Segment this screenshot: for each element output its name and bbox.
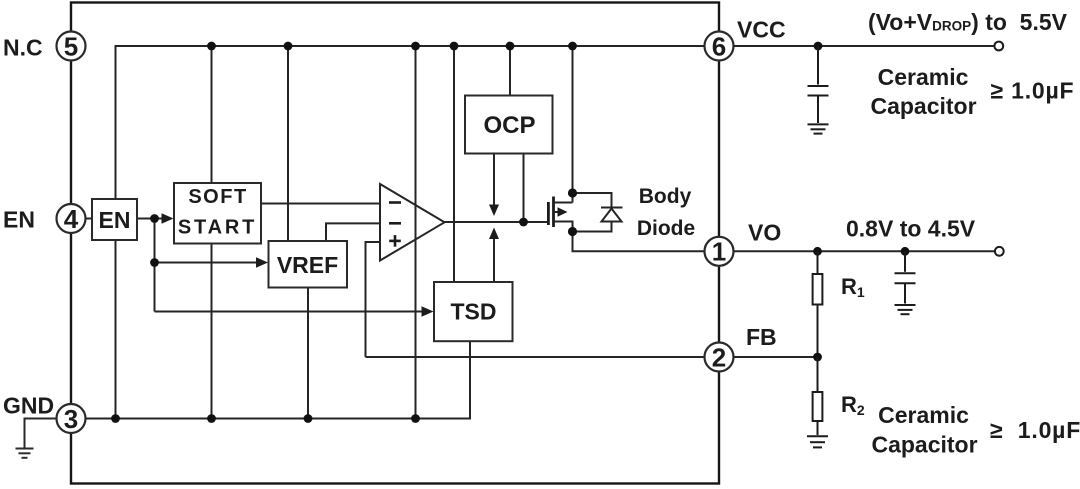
wire EN node vertical: [154, 219, 156, 312]
svg-text:4: 4: [64, 204, 79, 234]
junction dot MOSFET drain / diode: [568, 188, 577, 197]
svg-text:VREF: VREF: [277, 252, 338, 278]
resistor R2: [813, 357, 823, 435]
pin 4 EN: [57, 204, 86, 233]
terminal VCC input: [994, 42, 1003, 51]
wire VCC rail to TSD top: [453, 46, 455, 282]
wire rail drop through SOFT START x=211.5: [211, 46, 213, 419]
wire VCC rail to OCP top: [509, 46, 511, 96]
svg-text:6: 6: [712, 31, 726, 61]
svg-text:3: 3: [64, 404, 78, 434]
junction dot EN-VREF branch: [150, 258, 159, 267]
wire VREF bottom to GND rail: [307, 288, 309, 419]
svg-text:OCP: OCP: [483, 112, 535, 139]
wire OCP left stub with down arrow: [493, 154, 495, 207]
wire VCC rail to VREF top: [287, 46, 289, 241]
wire GND rail (internal bottom rail): [86, 341, 471, 418]
junction dot C2 top: [901, 247, 910, 256]
wire SOFT START output to op-amp input 1: [261, 203, 380, 205]
junction dot EN output: [150, 214, 159, 223]
svg-text:2: 2: [712, 342, 726, 372]
svg-text:Diode: Diode: [637, 217, 695, 240]
svg-text:VO: VO: [748, 219, 781, 245]
block TSD: [434, 282, 513, 341]
svg-text:EN: EN: [3, 206, 35, 232]
wire OCP right stub to gate line: [523, 154, 525, 223]
wire VREF output to op-amp input 2: [326, 223, 380, 241]
svg-text:EN: EN: [99, 207, 131, 233]
transistor Q1 pass MOSFET: [548, 197, 553, 228]
pin 5 N.C: [57, 32, 86, 61]
svg-text:(Vo+VDROP) to 5.5V: (Vo+VDROP) to 5.5V: [868, 9, 1068, 35]
svg-text:R2: R2: [841, 392, 865, 418]
arrow TSD up: [489, 228, 499, 240]
pin 6 VCC: [705, 32, 734, 61]
block EN: [92, 199, 137, 240]
wire MOSFET source drop to VO: [573, 222, 705, 252]
wire rail drop through op-amp x=415.5: [415, 46, 417, 419]
wire FB external: [734, 356, 818, 358]
wire VCC rail to MOSFET drain: [572, 46, 574, 203]
ground at pin 3: [16, 419, 57, 458]
capacitor C1 (VCC ceramic): [808, 46, 829, 123]
junction dot FB divider: [813, 353, 822, 362]
svg-text:R1: R1: [841, 274, 865, 300]
wire pin4 to EN box: [86, 218, 93, 220]
wire FB internal line: [366, 356, 705, 358]
junction dot R1 top: [813, 247, 822, 256]
wire op-amp output to MOSFET gate: [445, 221, 548, 223]
capacitor C2 (VO ceramic): [895, 251, 916, 303]
wire TSD top stub with up arrow: [493, 238, 495, 282]
svg-text:Ceramic: Ceramic: [878, 402, 969, 428]
svg-text:SOFT: SOFT: [188, 186, 247, 208]
pin 3 GND: [57, 404, 86, 433]
arrow into SOFT START: [162, 213, 174, 223]
terminal VO output: [995, 247, 1004, 256]
wire VCC external: [734, 45, 995, 47]
svg-text:START: START: [178, 217, 257, 239]
junction dot VCC cap: [814, 42, 823, 51]
svg-text:Capacitor: Capacitor: [870, 93, 976, 119]
arrow OCP down: [489, 205, 499, 217]
svg-text:≥ 1.0µF: ≥ 1.0µF: [990, 417, 1080, 443]
wire VCC rail (internal top rail): [116, 46, 705, 199]
block OCP: [465, 96, 553, 154]
ground R2: [807, 436, 828, 447]
wire EN node to TSD: [155, 311, 424, 313]
svg-text:VCC: VCC: [737, 16, 786, 42]
junction dot gate line / OCP: [519, 218, 528, 227]
wire EN box riser to GND rail: [115, 240, 117, 419]
pin 1 VO: [705, 237, 734, 266]
junction dots bottom rail: [111, 414, 420, 423]
junction dots top rail: [207, 42, 577, 51]
junction dot MOSFET source / diode: [568, 227, 577, 236]
wire FB feedback riser to op-amp plus input: [366, 242, 381, 357]
svg-text:TSD: TSD: [451, 298, 497, 324]
arrow into VREF: [256, 257, 268, 267]
svg-text:FB: FB: [746, 324, 777, 350]
svg-text:GND: GND: [3, 393, 54, 419]
pin 2 FB: [705, 343, 734, 372]
diode D1 body diode loop: [573, 193, 612, 208]
svg-text:N.C: N.C: [3, 34, 43, 60]
wire EN node to VREF: [155, 262, 258, 264]
block SOFT START: [174, 183, 261, 244]
svg-text:1: 1: [712, 237, 726, 267]
svg-text:Ceramic: Ceramic: [878, 64, 969, 90]
block VREF: [269, 241, 348, 288]
op-amp U1 (error amplifier): [380, 184, 445, 261]
svg-text:5: 5: [64, 31, 78, 61]
IC boundary rectangle: [71, 3, 719, 484]
svg-text:Capacitor: Capacitor: [871, 432, 977, 458]
svg-text:≥ 1.0µF: ≥ 1.0µF: [991, 77, 1075, 103]
svg-text:0.8V to 4.5V: 0.8V to 4.5V: [846, 215, 976, 241]
svg-text:Body: Body: [639, 185, 692, 208]
arrow into TSD: [422, 306, 434, 316]
ground C1: [808, 124, 829, 133]
ground C2: [895, 305, 916, 314]
resistor R1: [813, 251, 823, 357]
wire VO external: [734, 250, 996, 252]
wire EN box output: [137, 218, 163, 220]
